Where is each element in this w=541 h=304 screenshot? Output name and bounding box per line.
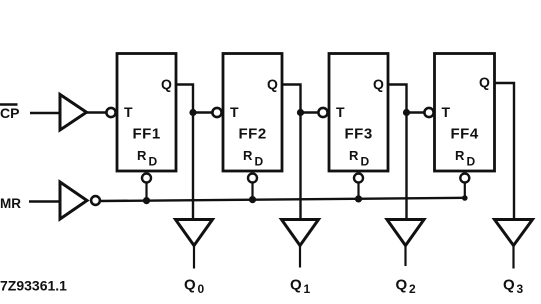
svg-text:7Z93361.1: 7Z93361.1 xyxy=(0,278,67,294)
wire FF3 RD stub to MR net xyxy=(357,183,359,200)
FF3 RD bubble xyxy=(354,174,363,183)
inverter A2 (MR input) xyxy=(60,182,87,219)
svg-text:2: 2 xyxy=(409,282,416,296)
wire FF1 Q to FF2 T xyxy=(193,111,212,113)
buffer B1 (Q1 output) xyxy=(282,220,319,246)
wire MR lead xyxy=(29,200,60,202)
svg-text:MR: MR xyxy=(0,196,21,211)
flip-flop FF4 box xyxy=(435,54,495,172)
svg-text:R: R xyxy=(455,148,465,163)
wire FF2 RD stub to MR net xyxy=(251,183,253,200)
svg-text:FF2: FF2 xyxy=(239,126,267,143)
svg-text:T: T xyxy=(124,104,133,120)
wire A1 output to FF1 T xyxy=(86,111,106,113)
wire Q3 stub xyxy=(512,246,514,269)
svg-text:R: R xyxy=(349,148,359,163)
svg-text:T: T xyxy=(336,104,345,120)
svg-text:FF3: FF3 xyxy=(345,126,373,143)
svg-text:R: R xyxy=(243,148,253,163)
wire FF1 RD stub to MR net xyxy=(145,183,147,201)
FF4 RD bubble xyxy=(460,174,469,183)
svg-text:Q: Q xyxy=(373,76,384,92)
svg-text:T: T xyxy=(442,104,451,120)
svg-text:Q: Q xyxy=(396,277,408,294)
svg-text:D: D xyxy=(361,155,370,169)
svg-text:T: T xyxy=(230,104,239,120)
svg-text:Q: Q xyxy=(503,277,515,294)
node junction FF2 Q branch xyxy=(297,109,304,116)
svg-text:D: D xyxy=(255,155,264,169)
node junction FF3 RD / MR xyxy=(355,195,362,202)
svg-text:1: 1 xyxy=(304,282,311,296)
svg-text:FF1: FF1 xyxy=(133,126,161,143)
buffer B0 (Q0 output) xyxy=(176,220,213,246)
wire FF3 Q output down to Q2 buffer xyxy=(388,85,407,221)
FF2 RD bubble xyxy=(248,174,257,183)
node junction FF4 RD / MR end xyxy=(462,195,468,201)
svg-text:Q: Q xyxy=(267,76,278,92)
wire MR net (to all RD stubs) xyxy=(100,198,465,201)
svg-text:Q: Q xyxy=(184,277,196,294)
wire Q2 stub xyxy=(404,246,406,267)
buffer B2 (Q2 output) xyxy=(387,220,424,246)
wire FF2 Q output down to Q1 buffer xyxy=(282,85,301,221)
flip-flop FF3 box xyxy=(329,54,388,172)
wire FF4 Q output down to Q3 buffer xyxy=(495,83,515,220)
FF2 T input bubble xyxy=(212,108,221,117)
wire FF4 RD stub to MR net end xyxy=(464,183,466,200)
svg-text:Q: Q xyxy=(479,74,490,90)
FF3 T input bubble xyxy=(318,108,327,117)
FF4 T input bubble xyxy=(424,108,433,117)
FF1 RD bubble xyxy=(142,174,151,183)
FF1 T input bubble xyxy=(106,108,115,117)
wire Q1 stub xyxy=(299,246,301,268)
svg-text:D: D xyxy=(467,155,476,169)
svg-text:Q: Q xyxy=(161,76,172,92)
wire Q0 stub xyxy=(193,246,195,269)
wire FF2 Q to FF3 T xyxy=(301,111,319,113)
node junction FF3 Q branch xyxy=(403,109,410,116)
svg-text:CP: CP xyxy=(0,105,19,121)
inverter A2 output bubble xyxy=(91,196,100,205)
svg-text:FF4: FF4 xyxy=(451,126,479,143)
wire CP lead xyxy=(30,112,60,114)
buffer B3 (Q3 output) xyxy=(495,220,533,246)
svg-text:0: 0 xyxy=(198,282,205,296)
flip-flop FF2 box xyxy=(223,54,282,172)
svg-text:Q: Q xyxy=(290,277,302,294)
svg-text:3: 3 xyxy=(517,282,524,296)
node junction FF1 Q branch xyxy=(189,109,196,116)
wire FF1 Q output down to Q0 buffer xyxy=(176,85,193,221)
svg-text:D: D xyxy=(149,155,158,169)
buffer A1 (CP input) xyxy=(60,95,87,131)
flip-flop FF1 box xyxy=(117,54,176,172)
svg-text:R: R xyxy=(137,148,147,163)
node junction FF1 RD / MR xyxy=(143,197,150,204)
node junction FF2 RD / MR xyxy=(249,196,256,203)
wire FF3 Q to FF4 T xyxy=(407,111,425,113)
